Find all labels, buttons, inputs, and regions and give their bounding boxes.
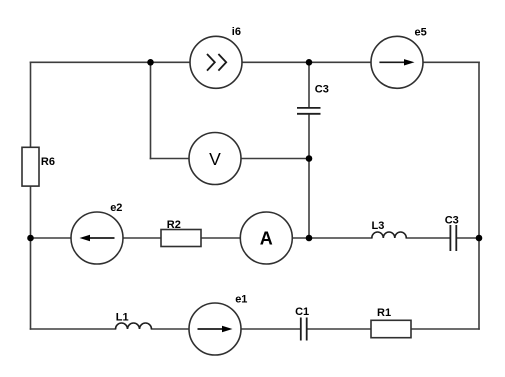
capacitor C3 (vertical branch)	[297, 83, 329, 114]
node C junction	[306, 155, 313, 162]
svg-text:R1: R1	[377, 307, 391, 319]
wire left side upper (corner to R6)	[30, 62, 32, 147]
wire e1 to C1	[241, 328, 300, 330]
svg-text:R6: R6	[41, 156, 55, 168]
wire ammeter to node D	[292, 237, 372, 239]
wire i6 to node B	[242, 61, 309, 63]
wire R2 to ammeter	[201, 237, 240, 239]
current source i6	[190, 26, 242, 89]
wire middle-left (node F to e2)	[31, 237, 72, 239]
wire right side	[478, 62, 480, 329]
source e2	[71, 202, 123, 264]
resistor R6	[22, 147, 55, 186]
wire branch to voltmeter	[151, 158, 190, 160]
svg-text:e5: e5	[415, 27, 427, 39]
svg-text:e1: e1	[235, 294, 247, 306]
node E junction	[476, 235, 483, 242]
svg-text:C1: C1	[295, 306, 309, 318]
svg-text:e2: e2	[110, 202, 122, 214]
wire branch node A down	[150, 62, 152, 158]
wire node B to e5	[309, 61, 371, 63]
svg-text:i6: i6	[232, 26, 241, 38]
node A junction	[147, 59, 154, 66]
source e1	[189, 294, 247, 355]
wire e5 to top-right corner	[423, 61, 479, 63]
wire e2 to R2	[123, 237, 161, 239]
source e5	[371, 27, 427, 89]
node B junction	[306, 59, 313, 66]
resistor R2	[161, 219, 201, 247]
wire R1 to bottom-right corner	[411, 328, 479, 330]
wire L1 to e1	[152, 328, 190, 330]
ammeter A	[240, 212, 292, 264]
svg-text:V: V	[209, 149, 221, 169]
wire C3 down to node D	[308, 115, 310, 238]
svg-text:C3: C3	[445, 215, 459, 227]
svg-text:L1: L1	[116, 312, 129, 324]
wire voltmeter to node C	[241, 158, 309, 160]
node F junction	[27, 235, 34, 242]
svg-text:A: A	[260, 229, 273, 249]
node D junction	[306, 235, 313, 242]
wire top-left (left corner to node A)	[31, 61, 151, 63]
wire C1 to R1	[308, 328, 372, 330]
capacitor C1	[295, 306, 309, 341]
svg-text:R2: R2	[167, 219, 181, 231]
wire C3 right to node E	[457, 237, 479, 239]
svg-text:C3: C3	[315, 83, 329, 95]
inductor L3	[372, 220, 407, 238]
voltmeter V	[189, 133, 241, 185]
capacitor C3 (right, horizontal)	[445, 215, 459, 252]
resistor R1	[371, 307, 411, 338]
wire left side lower (R6 to bottom corner)	[30, 186, 32, 329]
svg-text:L3: L3	[372, 220, 385, 232]
wire node A to i6	[151, 61, 191, 63]
inductor L1	[116, 312, 152, 330]
wire node B down to C3	[308, 62, 310, 107]
wire bottom (corner to L1)	[31, 328, 116, 330]
wire L3 to C3 right	[406, 237, 450, 239]
